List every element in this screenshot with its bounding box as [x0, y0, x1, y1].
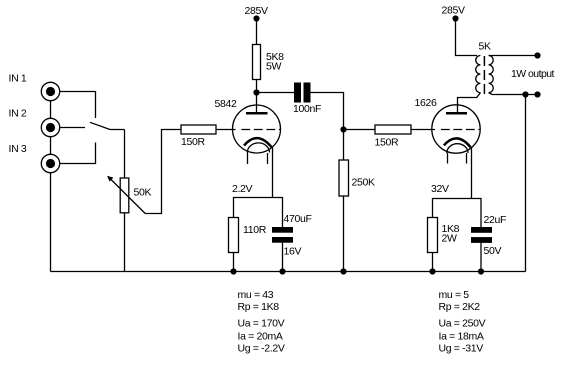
- svg-text:470uF: 470uF: [284, 213, 312, 225]
- svg-text:2.2V: 2.2V: [232, 183, 253, 195]
- junction 470uF ground: [279, 268, 285, 274]
- svg-text:Ug = -2.2V: Ug = -2.2V: [238, 343, 285, 355]
- svg-text:1W output: 1W output: [511, 68, 555, 80]
- svg-text:100nF: 100nF: [293, 103, 321, 115]
- wire secondary bottom: [489, 93, 538, 95]
- svg-text:110R: 110R: [243, 224, 267, 236]
- jack IN2: [41, 118, 59, 136]
- wire primary bottom to tube2 plate: [458, 93, 481, 113]
- wire 150R to tube1 grid: [216, 129, 236, 131]
- resistor 150R second: [375, 125, 412, 149]
- wire output ground to rail: [525, 95, 527, 272]
- wire 1K8 to ground: [432, 253, 434, 272]
- wire jack1 to jack2: [50, 101, 52, 119]
- svg-text:150R: 150R: [181, 136, 205, 148]
- switch arm: [90, 122, 125, 129]
- note tube2 operating point: [439, 289, 486, 355]
- capacitor 100nF: [293, 83, 321, 116]
- transformer 5K secondary: [489, 56, 494, 93]
- wire jack3 to ground rail: [50, 173, 52, 272]
- wire 470uF to ground: [282, 243, 284, 272]
- svg-text:5W: 5W: [266, 61, 281, 73]
- output terminal bottom: [534, 91, 540, 97]
- tube 5842: [215, 98, 281, 164]
- wire supply2 to transformer: [456, 21, 478, 56]
- node A junction: [253, 89, 259, 95]
- svg-text:mu = 43: mu = 43: [238, 289, 274, 301]
- wire switch contact IN2: [60, 127, 86, 129]
- resistor 150R first: [181, 125, 216, 148]
- wire 22uF to ground: [480, 243, 482, 272]
- note tube1 operating point: [238, 289, 285, 355]
- wire 150R2 to tube2 grid: [411, 129, 435, 131]
- svg-text:32V: 32V: [431, 183, 449, 195]
- svg-text:250K: 250K: [352, 177, 375, 189]
- junction 22uF ground: [478, 268, 484, 274]
- svg-text:IN 1: IN 1: [9, 73, 27, 85]
- wire cathode1 header: [234, 198, 283, 228]
- svg-text:5K: 5K: [479, 41, 491, 53]
- junction 1K8 ground: [429, 268, 435, 274]
- svg-text:50K: 50K: [134, 187, 152, 199]
- output terminal top: [534, 52, 540, 58]
- wire 5K8 to node A: [256, 80, 258, 91]
- wire node A to capacitor: [257, 92, 295, 94]
- svg-text:1626: 1626: [415, 97, 437, 109]
- svg-text:285V: 285V: [442, 5, 465, 17]
- svg-text:Rp = 1K8: Rp = 1K8: [238, 301, 280, 313]
- svg-text:mu = 5: mu = 5: [439, 289, 470, 301]
- node 285V supply left: [245, 5, 268, 22]
- wire switch pole to pot: [124, 130, 126, 179]
- svg-text:IN 3: IN 3: [9, 143, 27, 155]
- resistor 1K8 2W: [428, 218, 460, 253]
- tube 1626: [415, 97, 481, 164]
- svg-text:2W: 2W: [442, 233, 457, 245]
- ground rail: [51, 271, 526, 273]
- transformer core: [483, 56, 485, 94]
- svg-text:Ia = 20mA: Ia = 20mA: [238, 331, 283, 343]
- junction output ground: [522, 91, 528, 97]
- wire secondary top to output: [489, 55, 538, 57]
- svg-text:Rp = 2K2: Rp = 2K2: [439, 301, 481, 313]
- svg-text:50V: 50V: [484, 245, 502, 257]
- wire supply1 to R plate: [256, 21, 258, 45]
- capacitor 470uF: [272, 213, 312, 258]
- wire cathode2 header: [433, 199, 482, 228]
- wire 250K to ground rail: [343, 196, 345, 272]
- node B junction: [340, 126, 346, 132]
- jack IN3: [41, 154, 59, 172]
- svg-text:IN 2: IN 2: [9, 108, 27, 120]
- capacitor 22uF: [471, 214, 506, 257]
- svg-text:150R: 150R: [375, 137, 399, 149]
- wire node A to tube1 plate: [256, 93, 258, 113]
- resistor 250K: [339, 160, 375, 196]
- wire pot wiper to 150R: [145, 130, 181, 214]
- svg-text:Ua = 170V: Ua = 170V: [238, 318, 285, 330]
- wire switch contact IN3: [60, 143, 96, 164]
- svg-text:22uF: 22uF: [484, 214, 507, 226]
- wire pot to ground rail: [124, 213, 126, 272]
- junction 250K ground: [340, 268, 346, 274]
- svg-text:16V: 16V: [284, 246, 302, 258]
- wire node B to 150R2: [344, 129, 376, 131]
- potentiometer 50K: [107, 176, 151, 214]
- junction 110R ground: [230, 268, 236, 274]
- node 285V supply right: [442, 5, 465, 22]
- resistor 5K8 5W: [253, 45, 285, 80]
- svg-text:5842: 5842: [215, 98, 237, 110]
- jack IN1: [41, 82, 59, 100]
- wire 110R to ground: [233, 253, 235, 272]
- wire tube2 cathode down: [471, 147, 473, 198]
- svg-text:Ug = -31V: Ug = -31V: [439, 343, 484, 355]
- svg-text:Ua = 250V: Ua = 250V: [439, 318, 486, 330]
- transformer 5K primary: [476, 41, 491, 93]
- svg-text:285V: 285V: [245, 5, 268, 17]
- svg-text:Ia = 18mA: Ia = 18mA: [439, 331, 484, 343]
- resistor 110R: [229, 218, 267, 253]
- wire capacitor to node B: [311, 93, 344, 161]
- wire switch contact IN1: [60, 92, 96, 119]
- wire jack2 to jack3: [50, 137, 52, 155]
- wire tube1 cathode down: [272, 148, 274, 198]
